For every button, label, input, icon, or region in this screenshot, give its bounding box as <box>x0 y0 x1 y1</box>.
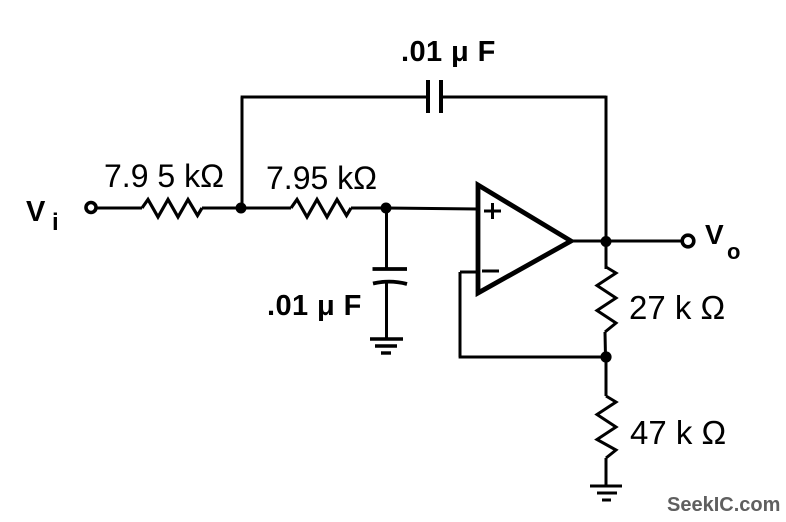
node C junction dot <box>601 236 612 247</box>
wire R2 to node B <box>351 207 386 210</box>
wire node B to op-amp plus input <box>386 208 478 209</box>
ground symbol under R4 <box>590 486 622 500</box>
resistor R3 27 kOhm <box>597 267 616 332</box>
resistor R1 7.95 kOhm <box>142 200 202 218</box>
wire top left to C1 <box>241 96 428 99</box>
svg-text:7.9 5 kΩ: 7.9 5 kΩ <box>104 158 224 194</box>
svg-text:o: o <box>727 239 740 264</box>
capacitor C1 .01 uF plates <box>428 80 441 113</box>
svg-text:47 k Ω: 47 k Ω <box>630 414 726 451</box>
op-amp plus sign <box>484 203 501 219</box>
wire node B down to C2 <box>385 208 388 268</box>
node Vi input label <box>26 196 59 236</box>
node A junction dot <box>236 203 247 214</box>
wire C2 to ground <box>385 283 388 339</box>
wire node C to output terminal <box>611 240 682 243</box>
wire R3 to node D <box>604 332 608 357</box>
wire node A to R2 <box>241 207 291 210</box>
input terminal circle Vi <box>86 203 96 213</box>
wire op-amp output to node C <box>571 240 606 243</box>
resistor R2 7.95 kOhm <box>291 200 351 218</box>
wire right vertical down to node C <box>605 96 608 241</box>
svg-text:7.95 kΩ: 7.95 kΩ <box>266 160 377 196</box>
ground symbol under C2 <box>370 339 403 353</box>
wire node C down to R3 <box>605 241 608 269</box>
wire input to R1 <box>97 207 142 210</box>
wire feedback bottom horizontal to node D <box>459 356 606 359</box>
wire C1 to right vertical <box>441 96 606 99</box>
wire R4 to ground <box>605 458 608 486</box>
wire R1 to node A <box>202 207 241 210</box>
svg-text:.01 μ F: .01 μ F <box>401 36 496 68</box>
node B junction dot <box>381 203 392 214</box>
wire op-amp minus stub <box>460 271 478 274</box>
node D junction dot <box>600 351 611 362</box>
svg-text:i: i <box>52 209 59 236</box>
op-amp U1 triangle <box>478 185 571 293</box>
svg-text:.01 μ F: .01 μ F <box>267 290 362 322</box>
svg-text:V: V <box>705 219 724 250</box>
svg-text:SeekIC.com: SeekIC.com <box>667 494 780 516</box>
op-amp minus sign <box>482 270 499 273</box>
output terminal circle Vo <box>682 235 694 247</box>
svg-text:V: V <box>26 196 46 228</box>
node Vo output label <box>705 219 740 264</box>
wire node D down to R4 <box>605 357 608 396</box>
resistor R4 47 kOhm <box>597 396 616 458</box>
capacitor C2 .01 uF plates <box>373 269 408 284</box>
wire node A up <box>241 97 244 208</box>
wire feedback left vertical <box>459 272 462 357</box>
svg-text:27 k Ω: 27 k Ω <box>629 289 725 326</box>
